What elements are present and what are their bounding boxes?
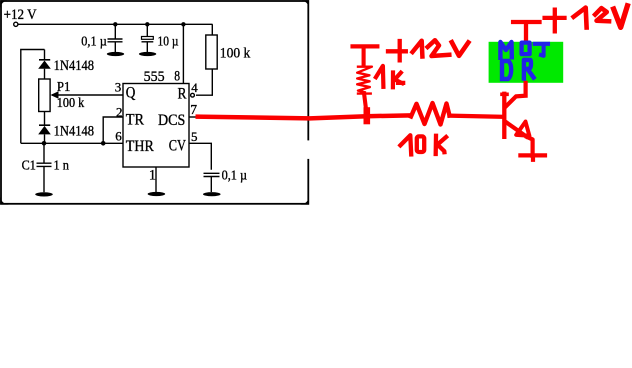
handwritten 1 (top) (574, 8, 587, 28)
capacitor C3 10u electrolytic (142, 37, 154, 40)
terminal +12V (14, 22, 18, 26)
capacitor C4 0,1u at CV (204, 173, 220, 176)
wire C1 to ground (43, 167, 45, 193)
node C1 top (42, 141, 47, 146)
ground under pin 1 (148, 192, 166, 196)
junction node blob (363, 111, 370, 122)
wire T-bar to R3 (362, 48, 366, 66)
ground under C4 (203, 192, 221, 196)
pin 6 wire THR (21, 142, 123, 144)
node rail-C3 (145, 22, 149, 26)
ground under C1 (35, 192, 53, 196)
svg-text:0,1 µ: 0,1 µ (222, 168, 248, 183)
svg-text:100 k: 100 k (57, 96, 85, 111)
svg-text:1N4148: 1N4148 (54, 124, 95, 140)
blue text T (535, 44, 548, 56)
emitter arrowhead (516, 122, 529, 136)
blue text R (524, 60, 534, 79)
handwritten +12V (mid) plus (388, 41, 406, 60)
resistor R4 10K zigzag (411, 103, 450, 125)
svg-text:R: R (178, 85, 187, 102)
wire supply T-bar to green box (524, 24, 528, 42)
resistor R3 1k zigzag (357, 67, 372, 94)
svg-text:1N4148: 1N4148 (54, 58, 95, 74)
transistor base bar top tick (502, 93, 507, 97)
resistor R2 100k (206, 35, 217, 69)
capacitor C2 0,1u (108, 39, 123, 42)
pin 3 wire Q output to wiper (52, 94, 123, 96)
wire C2 to rail (114, 24, 116, 38)
pin 5 wire CV (189, 143, 211, 170)
potentiometer P1 body (39, 79, 50, 112)
capacitor C1 (37, 163, 52, 166)
svg-text:Q: Q (126, 85, 136, 102)
svg-text:6: 6 (115, 129, 122, 144)
red wire R4 to transistor base (450, 116, 504, 117)
border corner wedge top-right (299, 0, 309, 10)
blue text O (522, 43, 530, 55)
handwritten 10K label K (436, 136, 446, 154)
supply T-bar of R3 (353, 44, 378, 48)
wire R3 to junction (364, 95, 366, 114)
supply T-bar top right (513, 20, 539, 24)
handwritten 2 (mid) (428, 40, 450, 56)
svg-text:3: 3 (115, 80, 122, 95)
ground under C2 (107, 52, 124, 56)
node pin6 (101, 141, 106, 146)
pin 4 bubble (191, 93, 195, 97)
handwritten 10K label 1 (400, 135, 411, 154)
node rail-C2 (113, 22, 117, 26)
svg-text:DCS: DCS (158, 112, 185, 129)
pin 1 wire (155, 167, 157, 192)
transistor collector (506, 83, 526, 107)
pin 2 wire TR (103, 117, 123, 143)
border corner wedge top-left (0, 0, 10, 10)
handwritten 1k label k (393, 73, 403, 88)
svg-text:10 µ: 10 µ (158, 33, 179, 48)
border frame (1, 1, 308, 204)
blue text M (500, 42, 511, 58)
handwritten 1 (mid) (413, 41, 423, 57)
wire C3 to rail (146, 24, 148, 36)
blue text D (502, 61, 511, 79)
wire emitter to ground (527, 137, 533, 156)
wire P1 to D2 (44, 112, 46, 126)
wire top rail (18, 23, 213, 25)
svg-text:+12 V: +12 V (4, 7, 38, 23)
wire D1 to P1 (44, 69, 46, 79)
border corner wedge bottom-right (299, 195, 309, 205)
pin 7 stub DCS (189, 116, 197, 118)
red wire node to R4 (367, 113, 411, 118)
svg-text:THR: THR (126, 138, 154, 155)
svg-text:100 k: 100 k (220, 45, 251, 61)
handwritten 10K label 0 (417, 136, 424, 152)
handwritten +12V (top) plus (545, 10, 565, 32)
handwritten V (top) (614, 6, 628, 28)
svg-text:8: 8 (174, 69, 180, 85)
wire loop to D1 (44, 50, 46, 60)
svg-text:C1: C1 (22, 159, 36, 174)
wire C2 to ground (114, 42, 116, 53)
border gap (right side) (306, 140, 311, 159)
transistor emitter (506, 122, 527, 137)
handwritten 2 (top) (595, 8, 609, 21)
arrowhead wiper (51, 91, 59, 98)
ground under C3 (139, 52, 156, 56)
svg-text:P1: P1 (57, 80, 71, 95)
diode D2 1N4148 (39, 124, 50, 126)
node rail-pin8 (181, 22, 185, 26)
wire D2 to node (44, 134, 46, 143)
diode D1 1N4148 (39, 59, 50, 61)
handwritten 1k label 1 (376, 66, 384, 87)
handwritten V (mid) (452, 42, 469, 56)
wire rail to R2 and R2 to pin4 (196, 24, 212, 95)
svg-text:5: 5 (191, 129, 198, 144)
wire rail to pin 8 (182, 24, 184, 83)
green box MOT DR (489, 42, 564, 83)
wire left loop (21, 50, 45, 144)
red wire pin7 to node (196, 116, 367, 118)
svg-text:TR: TR (126, 112, 144, 129)
svg-text:CV: CV (169, 137, 187, 154)
wire node to C1 (43, 143, 45, 162)
svg-text:1: 1 (149, 167, 156, 183)
wire C3 to ground (146, 42, 148, 52)
svg-text:0,1 µ: 0,1 µ (81, 33, 107, 48)
border corner wedge bottom-left (0, 195, 10, 205)
svg-text:2: 2 (116, 105, 123, 120)
op IC 555 body (123, 84, 189, 168)
svg-text:1 n: 1 n (54, 159, 70, 174)
svg-text:4: 4 (191, 80, 198, 95)
wire C4 to ground (210, 177, 212, 192)
transistor Q1 base bar (502, 94, 506, 137)
svg-text:555: 555 (144, 69, 165, 85)
emitter ground bar (520, 155, 545, 159)
